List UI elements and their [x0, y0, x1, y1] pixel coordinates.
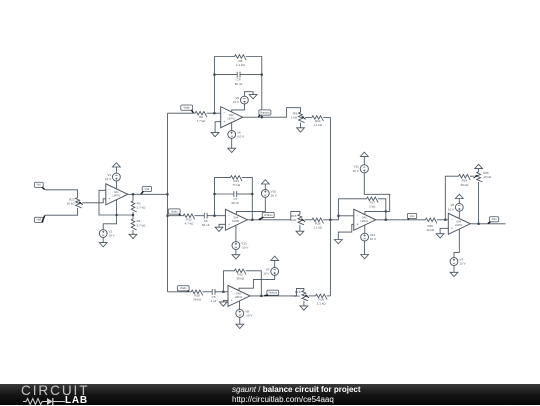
- wire R17 to right vertical: [378, 199, 386, 220]
- svg-text:10 kΩ: 10 kΩ: [67, 202, 76, 206]
- potentiometer R23: [67, 197, 83, 208]
- svg-text:Vbalin: Vbalin: [171, 211, 178, 213]
- resistor R25: [425, 218, 436, 232]
- wire R15 wiper to R16: [305, 219, 313, 221]
- svg-text:1 uF: 1 uF: [211, 299, 217, 303]
- ground below V6: [228, 148, 236, 152]
- svg-text:+: +: [231, 299, 233, 303]
- resistor R13 feedback: [230, 176, 242, 187]
- svg-text:VinL: VinL: [37, 185, 42, 187]
- wire V12 to ground: [364, 241, 366, 255]
- junction output pot tap: [478, 223, 480, 225]
- wire OA2 non-inverting to ground: [215, 122, 221, 133]
- wire V8 to ground up: [458, 199, 460, 204]
- ground below R9: [297, 128, 305, 132]
- svg-text:Vbassout: Vbassout: [260, 111, 270, 114]
- junction OA3 inverting node: [337, 215, 339, 217]
- wire R11 to right vertical: [246, 271, 262, 296]
- wire R9 bottom to ground: [300, 123, 302, 128]
- wire V10 to ground up: [264, 184, 266, 190]
- wire feedback left vertical OA6: [445, 176, 459, 220]
- wire capacitor C4 left lead: [214, 74, 237, 76]
- voltage source V2: [99, 229, 114, 237]
- junction C4 left: [213, 74, 215, 76]
- svg-text:10 V: 10 V: [353, 169, 359, 173]
- wire V11 to OA3 V+ pin: [364, 173, 389, 215]
- svg-text:LM741: LM741: [361, 220, 369, 223]
- junction bus stage1 output: [166, 193, 168, 195]
- svg-text:4.7 kΩ: 4.7 kΩ: [185, 221, 195, 225]
- svg-text:Vout: Vout: [492, 218, 497, 221]
- wire to R25: [408, 219, 426, 221]
- svg-text:7.7 kΩ: 7.7 kΩ: [197, 119, 207, 123]
- wire feedback left vertical OA4: [215, 177, 231, 215]
- wire bus to R12: [168, 215, 184, 217]
- ground above V7: [271, 256, 279, 260]
- svg-text:60 nF: 60 nF: [231, 201, 239, 205]
- wire OA5 V- pin to V8: [239, 301, 241, 309]
- wire R8 to right vertical: [246, 57, 262, 118]
- resistor R6: [195, 111, 207, 123]
- capacitor C7 feedback: [231, 191, 239, 205]
- svg-text:−: −: [357, 214, 359, 218]
- wire OA6 non-inverting to ground: [440, 228, 448, 233]
- resistor R17 feedback: [367, 197, 378, 209]
- svg-text:60 nF: 60 nF: [202, 223, 210, 227]
- svg-text:1 kΩ: 1 kΩ: [290, 218, 297, 222]
- svg-text:−: −: [231, 290, 233, 294]
- svg-text:−: −: [451, 218, 453, 222]
- resistor R18: [191, 290, 203, 302]
- junction R3 R4 feedback node: [132, 214, 134, 216]
- wire OA1 V- pin down: [103, 200, 116, 230]
- wire R10 to summing bus: [323, 116, 330, 118]
- svg-text:77 kΩ: 77 kΩ: [232, 183, 241, 187]
- ground OA5 + input: [219, 302, 227, 306]
- junction OA2 output feedback: [261, 116, 263, 118]
- svg-text:−: −: [223, 111, 225, 115]
- ground below V13: [232, 255, 240, 259]
- svg-text:+: +: [109, 197, 111, 201]
- wire R26 top to ground up: [478, 169, 480, 172]
- svg-text:+: +: [223, 120, 225, 124]
- wire R20 to summing bus: [327, 295, 331, 297]
- wire V8 to OA6 V+ pin: [458, 211, 460, 218]
- wire OA1 inverting input feedback: [99, 190, 133, 215]
- ground OA3 + input: [334, 240, 342, 244]
- junction OA6 inverting node: [444, 219, 446, 221]
- svg-text:Vout: Vout: [410, 215, 415, 218]
- voltage source V1: [105, 173, 120, 181]
- capacitor C5: [211, 289, 217, 303]
- wire OA3 non-inverting to ground: [338, 224, 354, 239]
- voltage source V13: [232, 241, 248, 249]
- svg-text:1 kΩ: 1 kΩ: [369, 205, 376, 209]
- voltage source V11: [353, 165, 369, 173]
- svg-text:LM741: LM741: [227, 118, 235, 121]
- wire V9 to ground: [453, 265, 455, 272]
- node flag Vbalin bottom: [177, 286, 189, 292]
- wire OA6 output: [470, 223, 505, 225]
- svg-text:1.1 kΩ: 1.1 kΩ: [313, 123, 323, 127]
- resistor R10: [312, 116, 323, 128]
- ground below V9: [450, 272, 458, 276]
- wire R24 to pot R26 wiper: [470, 175, 474, 177]
- node flag VinR: [34, 215, 44, 222]
- wire vertical distribution bus: [167, 113, 169, 292]
- wire R25 to OA6 inverting input: [437, 219, 448, 221]
- wire OA1 output to bus: [128, 193, 168, 195]
- ground below R15: [296, 231, 304, 235]
- svg-text:60 nF: 60 nF: [235, 82, 243, 86]
- ground OA4 + input: [215, 227, 223, 231]
- svg-text:1 kΩ: 1 kΩ: [291, 116, 298, 120]
- wire C5 to OA5 inverting input: [215, 291, 228, 293]
- op-amp OA1: [106, 184, 128, 205]
- junction OA4 inverting node: [213, 215, 215, 217]
- resistor R3: [131, 201, 146, 212]
- ground above V10: [261, 180, 269, 184]
- wire R13 to right vertical: [242, 177, 253, 219]
- svg-text:10 V: 10 V: [233, 100, 239, 104]
- resistor R20: [316, 294, 327, 306]
- svg-text:10 V: 10 V: [105, 177, 111, 181]
- wire R6 to OA2 inverting input: [207, 112, 221, 114]
- wire V5 to OA2 V+ pin: [232, 104, 245, 112]
- junction OA1 output R3 tap: [132, 193, 134, 195]
- svg-text:VinR: VinR: [36, 220, 41, 222]
- wire V2 to ground: [102, 237, 104, 242]
- junction bus mid branch: [166, 215, 168, 217]
- wire OA4 non-inverting to ground: [219, 224, 225, 227]
- op-amp OA2: [221, 107, 243, 128]
- resistor R8 feedback: [235, 55, 247, 67]
- svg-text:Vtrebout: Vtrebout: [268, 292, 277, 295]
- wire OA6 V- pin to V9: [454, 229, 459, 258]
- svg-text:10 V: 10 V: [459, 262, 465, 266]
- svg-text:−: −: [228, 214, 230, 218]
- wire V13 to ground: [235, 249, 237, 254]
- svg-text:-10 V: -10 V: [237, 134, 244, 138]
- voltage source V10: [261, 189, 276, 197]
- wire C6 to OA4 inverting input: [207, 215, 225, 217]
- svg-text:39 kΩ: 39 kΩ: [193, 298, 202, 302]
- wire V6 to ground: [231, 138, 233, 148]
- svg-text:LM741: LM741: [113, 195, 121, 198]
- op-amp OA6: [448, 213, 470, 234]
- svg-text:Vbalin: Vbalin: [184, 108, 191, 110]
- node flag Vbalin top: [181, 105, 194, 113]
- voltage source V8: [448, 203, 463, 211]
- svg-text:LM741: LM741: [232, 220, 240, 223]
- wire V5 top elbow: [244, 92, 253, 97]
- svg-text:LM741: LM741: [235, 296, 243, 299]
- svg-text:+: +: [228, 223, 230, 227]
- svg-text:-10 V: -10 V: [241, 246, 248, 250]
- ground below R4: [129, 234, 137, 238]
- voltage source V12: [361, 233, 376, 241]
- svg-text:5.7 kΩ: 5.7 kΩ: [137, 206, 147, 210]
- ground above R26: [475, 164, 483, 168]
- svg-text:Vbalin: Vbalin: [180, 288, 187, 290]
- wire capacitor C4 right lead: [240, 74, 262, 76]
- resistor R11 feedback: [234, 269, 246, 280]
- junction OA2 inverting node: [213, 112, 215, 114]
- wire R4 to ground: [132, 230, 134, 234]
- wire VinL to pot R23 top: [45, 190, 78, 198]
- node flag Vbassout: [258, 110, 271, 117]
- wire R19 bottom to ground: [303, 301, 305, 306]
- svg-text:LM741: LM741: [455, 224, 463, 227]
- svg-text:1.1 kΩ: 1.1 kΩ: [313, 226, 323, 230]
- junction C7 left: [213, 193, 215, 195]
- wire OA2 V- pin to V6: [231, 123, 233, 131]
- ground below V8b: [236, 324, 244, 328]
- wire OA5 non-inverting to ground: [223, 300, 228, 302]
- wire V7 to ground up: [274, 260, 276, 267]
- node flag VinL: [34, 182, 44, 189]
- junction C4 right: [261, 74, 263, 76]
- ground above V1: [113, 163, 121, 167]
- wire feedback left vertical OA3: [338, 199, 366, 216]
- svg-text:5.7 kΩ: 5.7 kΩ: [137, 223, 147, 227]
- svg-text:1.1 kΩ: 1.1 kΩ: [236, 63, 246, 67]
- svg-text:10 V: 10 V: [263, 271, 269, 275]
- wire capacitor C7 left lead: [215, 193, 234, 195]
- wire feedback left vertical OA5: [223, 271, 234, 292]
- ground above V8: [455, 194, 463, 198]
- wire R26 bottom to output: [478, 182, 480, 224]
- svg-text:39 kΩ: 39 kΩ: [460, 183, 469, 187]
- wire R16 to summing bus: [323, 219, 330, 221]
- wire OA3 output: [376, 219, 408, 221]
- junction OA4 output feedback: [251, 219, 253, 221]
- wire V8b to ground: [239, 317, 241, 324]
- resistor R24 feedback: [459, 174, 470, 186]
- wire R9 wiper to R10: [305, 116, 312, 118]
- wire R23 wiper to op-amp non-inverting input: [82, 199, 106, 203]
- wire V11 to ground up: [363, 156, 365, 164]
- voltage source V9: [450, 257, 465, 265]
- potentiometer R9: [291, 111, 306, 122]
- node flag Vbalin mid: [168, 209, 180, 216]
- ground above V11: [360, 152, 368, 156]
- node flag Vbal stage1 output: [141, 186, 152, 194]
- svg-text:10 kΩ: 10 kΩ: [426, 228, 435, 232]
- wire feedback left vertical OA2: [214, 57, 235, 114]
- wire V1 to ground up: [115, 167, 117, 173]
- resistor R16: [312, 218, 323, 230]
- svg-text:+: +: [357, 223, 359, 227]
- svg-text:Vbal: Vbal: [145, 189, 150, 191]
- wire summing bus vertical: [329, 117, 331, 296]
- node flag Vout final: [488, 217, 499, 224]
- voltage source V6: [228, 130, 244, 138]
- junction summing bus middle: [329, 219, 331, 221]
- ground OA2 + input: [211, 132, 219, 136]
- svg-text:39 kΩ: 39 kΩ: [236, 276, 245, 280]
- wire R3 top lead: [132, 194, 134, 201]
- junction OA5 output feedback: [260, 295, 262, 297]
- svg-text:10 kΩ: 10 kΩ: [483, 175, 492, 179]
- node flag Vtrebout: [264, 290, 278, 296]
- wire bus to R18: [168, 291, 192, 293]
- capacitor C4 feedback: [235, 72, 243, 86]
- capacitor C6: [202, 213, 210, 227]
- svg-text:10 V: 10 V: [448, 207, 454, 211]
- voltage source V5: [233, 96, 248, 104]
- ground OA6 + input: [436, 234, 444, 238]
- wire OA4 output: [247, 212, 300, 220]
- potentiometer R26: [474, 171, 492, 182]
- svg-text:Vmidout: Vmidout: [264, 214, 273, 217]
- wire R19 wiper to R20: [309, 295, 316, 297]
- op-amp OA3: [354, 209, 376, 230]
- wire R15 bottom to ground: [299, 225, 301, 231]
- wire capacitor C7 right lead: [237, 193, 253, 195]
- potentiometer R15: [290, 214, 305, 225]
- footer logo resistor and diode: [23, 397, 69, 406]
- svg-text:−: −: [109, 188, 111, 192]
- junction OA1 V- crossing: [116, 214, 118, 216]
- ground below V12: [361, 255, 369, 259]
- node flag Vsum: [407, 213, 416, 219]
- svg-text:+: +: [451, 227, 453, 231]
- op-amp OA5: [228, 285, 250, 306]
- svg-text:10 V: 10 V: [109, 234, 115, 238]
- wire VinR to pot R23 bottom: [45, 208, 78, 215]
- svg-text:1 kΩ: 1 kΩ: [294, 294, 301, 298]
- junction C7 right: [251, 193, 253, 195]
- wire OA2 output: [243, 108, 301, 118]
- ground right of V5: [249, 95, 257, 99]
- node flag Vmidout: [259, 212, 275, 219]
- junction OA3 output feedback: [385, 219, 387, 221]
- voltage source V8b: [236, 309, 253, 317]
- svg-text:10 V: 10 V: [370, 237, 376, 241]
- wire R12 to C6: [195, 215, 205, 217]
- wire R18 to C5: [203, 291, 213, 293]
- resistor R4: [131, 219, 146, 230]
- svg-text:-10 V: -10 V: [245, 313, 252, 317]
- junction V+ route crossing: [385, 210, 387, 212]
- wire V7 to OA5 V+ pin: [239, 275, 275, 290]
- wire OA1 V+ pin to V1: [115, 181, 117, 189]
- wire R3 to R4 node: [132, 212, 134, 219]
- op-amp OA4: [225, 209, 247, 230]
- wire bus to R6: [168, 112, 196, 114]
- ground below V2: [99, 243, 107, 247]
- potentiometer R19: [294, 290, 309, 301]
- wire OA5 output: [250, 288, 304, 296]
- svg-text:10 V: 10 V: [271, 193, 277, 197]
- resistor R12: [183, 214, 195, 226]
- wire OA4 V- pin to V13: [235, 225, 237, 242]
- wire OA3 V- pin to V12: [364, 225, 366, 233]
- wire V10 to OA4 V+ pin: [236, 197, 265, 214]
- svg-text:1.1 kΩ: 1.1 kΩ: [317, 302, 327, 306]
- voltage source V7: [263, 267, 278, 275]
- wire bus to OA3 inverting input: [330, 216, 353, 220]
- ground below R19: [300, 306, 308, 310]
- junction OA5 inverting node: [222, 291, 224, 293]
